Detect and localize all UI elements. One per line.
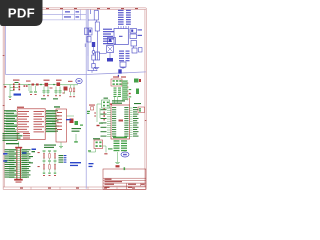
- section frame left bottom: [6, 74, 87, 76]
- wire: [88, 10, 97, 23]
- transistor Q1: [92, 55, 95, 68]
- pin header J3: [114, 80, 132, 103]
- svg-text:PDF: PDF: [8, 6, 35, 21]
- wire: [119, 26, 129, 29]
- section divider vertical: [85, 10, 87, 189]
- pull-up resistors: [38, 145, 67, 177]
- resistor R3: [95, 52, 99, 60]
- capacitor C6: [132, 48, 137, 53]
- capacitor C9: [136, 89, 139, 95]
- capacitor C5: [130, 34, 142, 39]
- capacitor C10: [134, 103, 145, 113]
- resistor R2: [95, 22, 99, 31]
- resistor R4: [131, 41, 137, 49]
- crystal Y1: [88, 138, 108, 154]
- divider resistors: [62, 81, 78, 97]
- wire: [88, 10, 91, 57]
- capacitor C4: [130, 29, 142, 34]
- input connector filter: [3, 80, 30, 101]
- capacitor C1: [85, 28, 88, 35]
- off-sheet port: [118, 69, 122, 76]
- net labels: [103, 29, 114, 45]
- flash memory U2: [101, 98, 139, 139]
- wire: [99, 53, 113, 62]
- net labels: [3, 133, 31, 141]
- resistor R1: [94, 11, 98, 21]
- resistor R5: [134, 79, 141, 83]
- connector J4: [3, 142, 33, 183]
- section frame left vertical: [6, 10, 87, 75]
- microcontroller U4: [4, 107, 59, 140]
- sheet border frame: [3, 8, 147, 190]
- connector J2: [111, 76, 126, 86]
- transceiver U5: [52, 106, 83, 148]
- label USB: [14, 94, 22, 96]
- port P1: [76, 78, 82, 83]
- wire harness: [87, 98, 112, 127]
- wire: [88, 31, 98, 71]
- diode D1: [92, 42, 95, 53]
- crystal Y2: [107, 38, 116, 53]
- capacitor C7: [139, 48, 143, 53]
- logo: [121, 152, 129, 157]
- op-amp U1: [114, 29, 128, 45]
- bottom pin bank: [108, 137, 127, 168]
- transistor Q2: [120, 62, 126, 69]
- note labels: [70, 162, 81, 166]
- net labels: [119, 51, 130, 62]
- capacitor C3: [87, 37, 91, 43]
- section frame right bottom: [86, 72, 146, 75]
- PDF badge: [0, 0, 43, 26]
- label: [32, 149, 37, 153]
- sheet title table: [6, 10, 87, 20]
- ground: [92, 67, 99, 73]
- regulator circuit U3: [26, 80, 62, 100]
- note labels: [89, 163, 94, 167]
- title block: [103, 167, 146, 189]
- capacitor C2: [89, 28, 93, 35]
- pin list text: [118, 10, 131, 25]
